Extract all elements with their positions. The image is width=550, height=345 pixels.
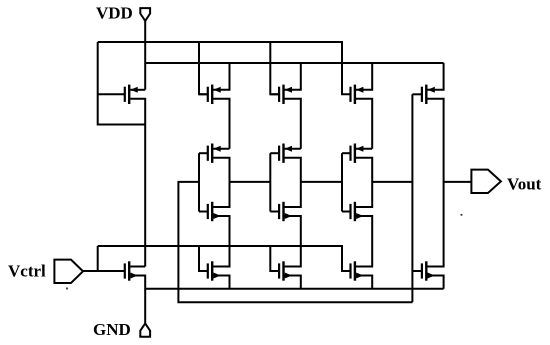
wire stage1 out to stage2 in [230, 181, 271, 183]
wire pbias to M-P2 gate [270, 42, 279, 94]
nmos output buffer MNB [412, 261, 434, 280]
nbias bus + drop to M-N3 gate [98, 246, 351, 271]
wire VDD pin to M0 source [144, 21, 146, 90]
svg-text:GND: GND [93, 320, 131, 339]
node OUT1: MPI1 drain to MNI1 drain [213, 158, 229, 207]
pmos inverter MPI3 stage 3 [342, 144, 363, 163]
stray dot near Vout [460, 214, 462, 216]
wire MP2 source to VDD rail [285, 63, 301, 90]
wire MPI1 source stub [213, 148, 229, 150]
wire MP1 drain to MPI1 source [213, 99, 229, 149]
nmos inverter MNI3 stage 3 [342, 202, 363, 221]
pmos current source MP2 stage 2 [270, 85, 292, 104]
nmos inverter MNI2 stage 2 [270, 202, 292, 221]
wire MP3 source to VDD rail [356, 63, 372, 90]
stray dot near Vctrl [66, 287, 68, 289]
pmos current source MP3 stage 3 [351, 85, 364, 104]
wire M5 drain stub [130, 266, 145, 268]
wire Vout [444, 181, 472, 183]
wire M0 source stub [130, 89, 145, 91]
Vctrl pin [54, 260, 83, 283]
pmos current source MP1 stage 1 [199, 85, 221, 104]
pmos inverter MPI1 stage 1 [199, 144, 221, 163]
feedback wire (stage3 out to stage1 in) [178, 182, 412, 302]
wire M0 drain to M5 drain [130, 99, 145, 267]
wire stage2 out to stage3 in [301, 181, 342, 183]
wire MN2 source to ground bus [285, 276, 301, 289]
node IN3: input tie vertical [341, 153, 343, 211]
nmos current sink MN2 stage 2 [279, 261, 292, 280]
VDD rail [145, 62, 443, 64]
wire MN3 source to ground bus [356, 276, 372, 289]
wire MN1 source to ground bus [213, 276, 229, 289]
wire nbias to MN2 gate [270, 246, 279, 271]
node BGATE: buffer gate vertical [411, 94, 413, 302]
node OUT2: MPI2 drain to MNI2 drain [285, 158, 301, 207]
wire MPB source to VDD rail [427, 63, 443, 90]
wire MP1 source to VDD rail [213, 63, 229, 90]
node VOUT: MPB drain to MNB drain [427, 99, 443, 267]
wire MNI2 source to MN2 drain [285, 216, 301, 267]
wire Vctrl to M5 gate [83, 270, 125, 272]
pmos output buffer MPB [412, 85, 434, 104]
wire MNI3 source to MN3 drain [356, 216, 372, 267]
VDD pin [140, 8, 150, 21]
node pbias: M0 gate tie vertical [98, 42, 146, 125]
GND pin [140, 323, 150, 336]
wire MPI2 source stub [285, 148, 301, 150]
svg-text:Vout: Vout [507, 175, 542, 194]
nmos current sink MN3 stage 3 [351, 261, 364, 280]
node IN2: input tie vertical [269, 153, 271, 211]
nmos current sink MN1 stage 1 [208, 261, 221, 280]
nmos inverter MNI1 stage 1 [199, 202, 221, 221]
node IN1: input tie vertical [198, 153, 200, 211]
wire nbias drop to Vctrl [97, 246, 99, 271]
wire MNB source to ground bus end [427, 276, 443, 289]
node OUT3: MPI3 drain to MNI3 drain [356, 158, 372, 207]
pbias rail + drop to M-P3 gate [98, 42, 351, 94]
wire MPI3 source stub [356, 148, 372, 150]
Vout pin [471, 170, 501, 193]
pmos inverter MPI2 stage 2 [270, 144, 292, 163]
nmos M5 (Vctrl mirror) [83, 261, 138, 280]
wire MP2 drain to MPI2 source [285, 99, 301, 149]
ground bus [145, 288, 443, 290]
wire M5 source to GND pin [130, 276, 145, 324]
wire stage3 out to buffer gate [372, 181, 412, 183]
pmos M0 (diode-connected mirror) [98, 85, 138, 104]
wire nbias to MN1 gate [199, 246, 208, 271]
svg-text:VDD: VDD [96, 4, 133, 23]
wire MP3 drain to MPI3 source [356, 99, 372, 149]
wire pbias to M-P1 gate [199, 42, 208, 94]
svg-text:Vctrl: Vctrl [8, 262, 46, 281]
wire MNI1 source to MN1 drain [213, 216, 229, 267]
